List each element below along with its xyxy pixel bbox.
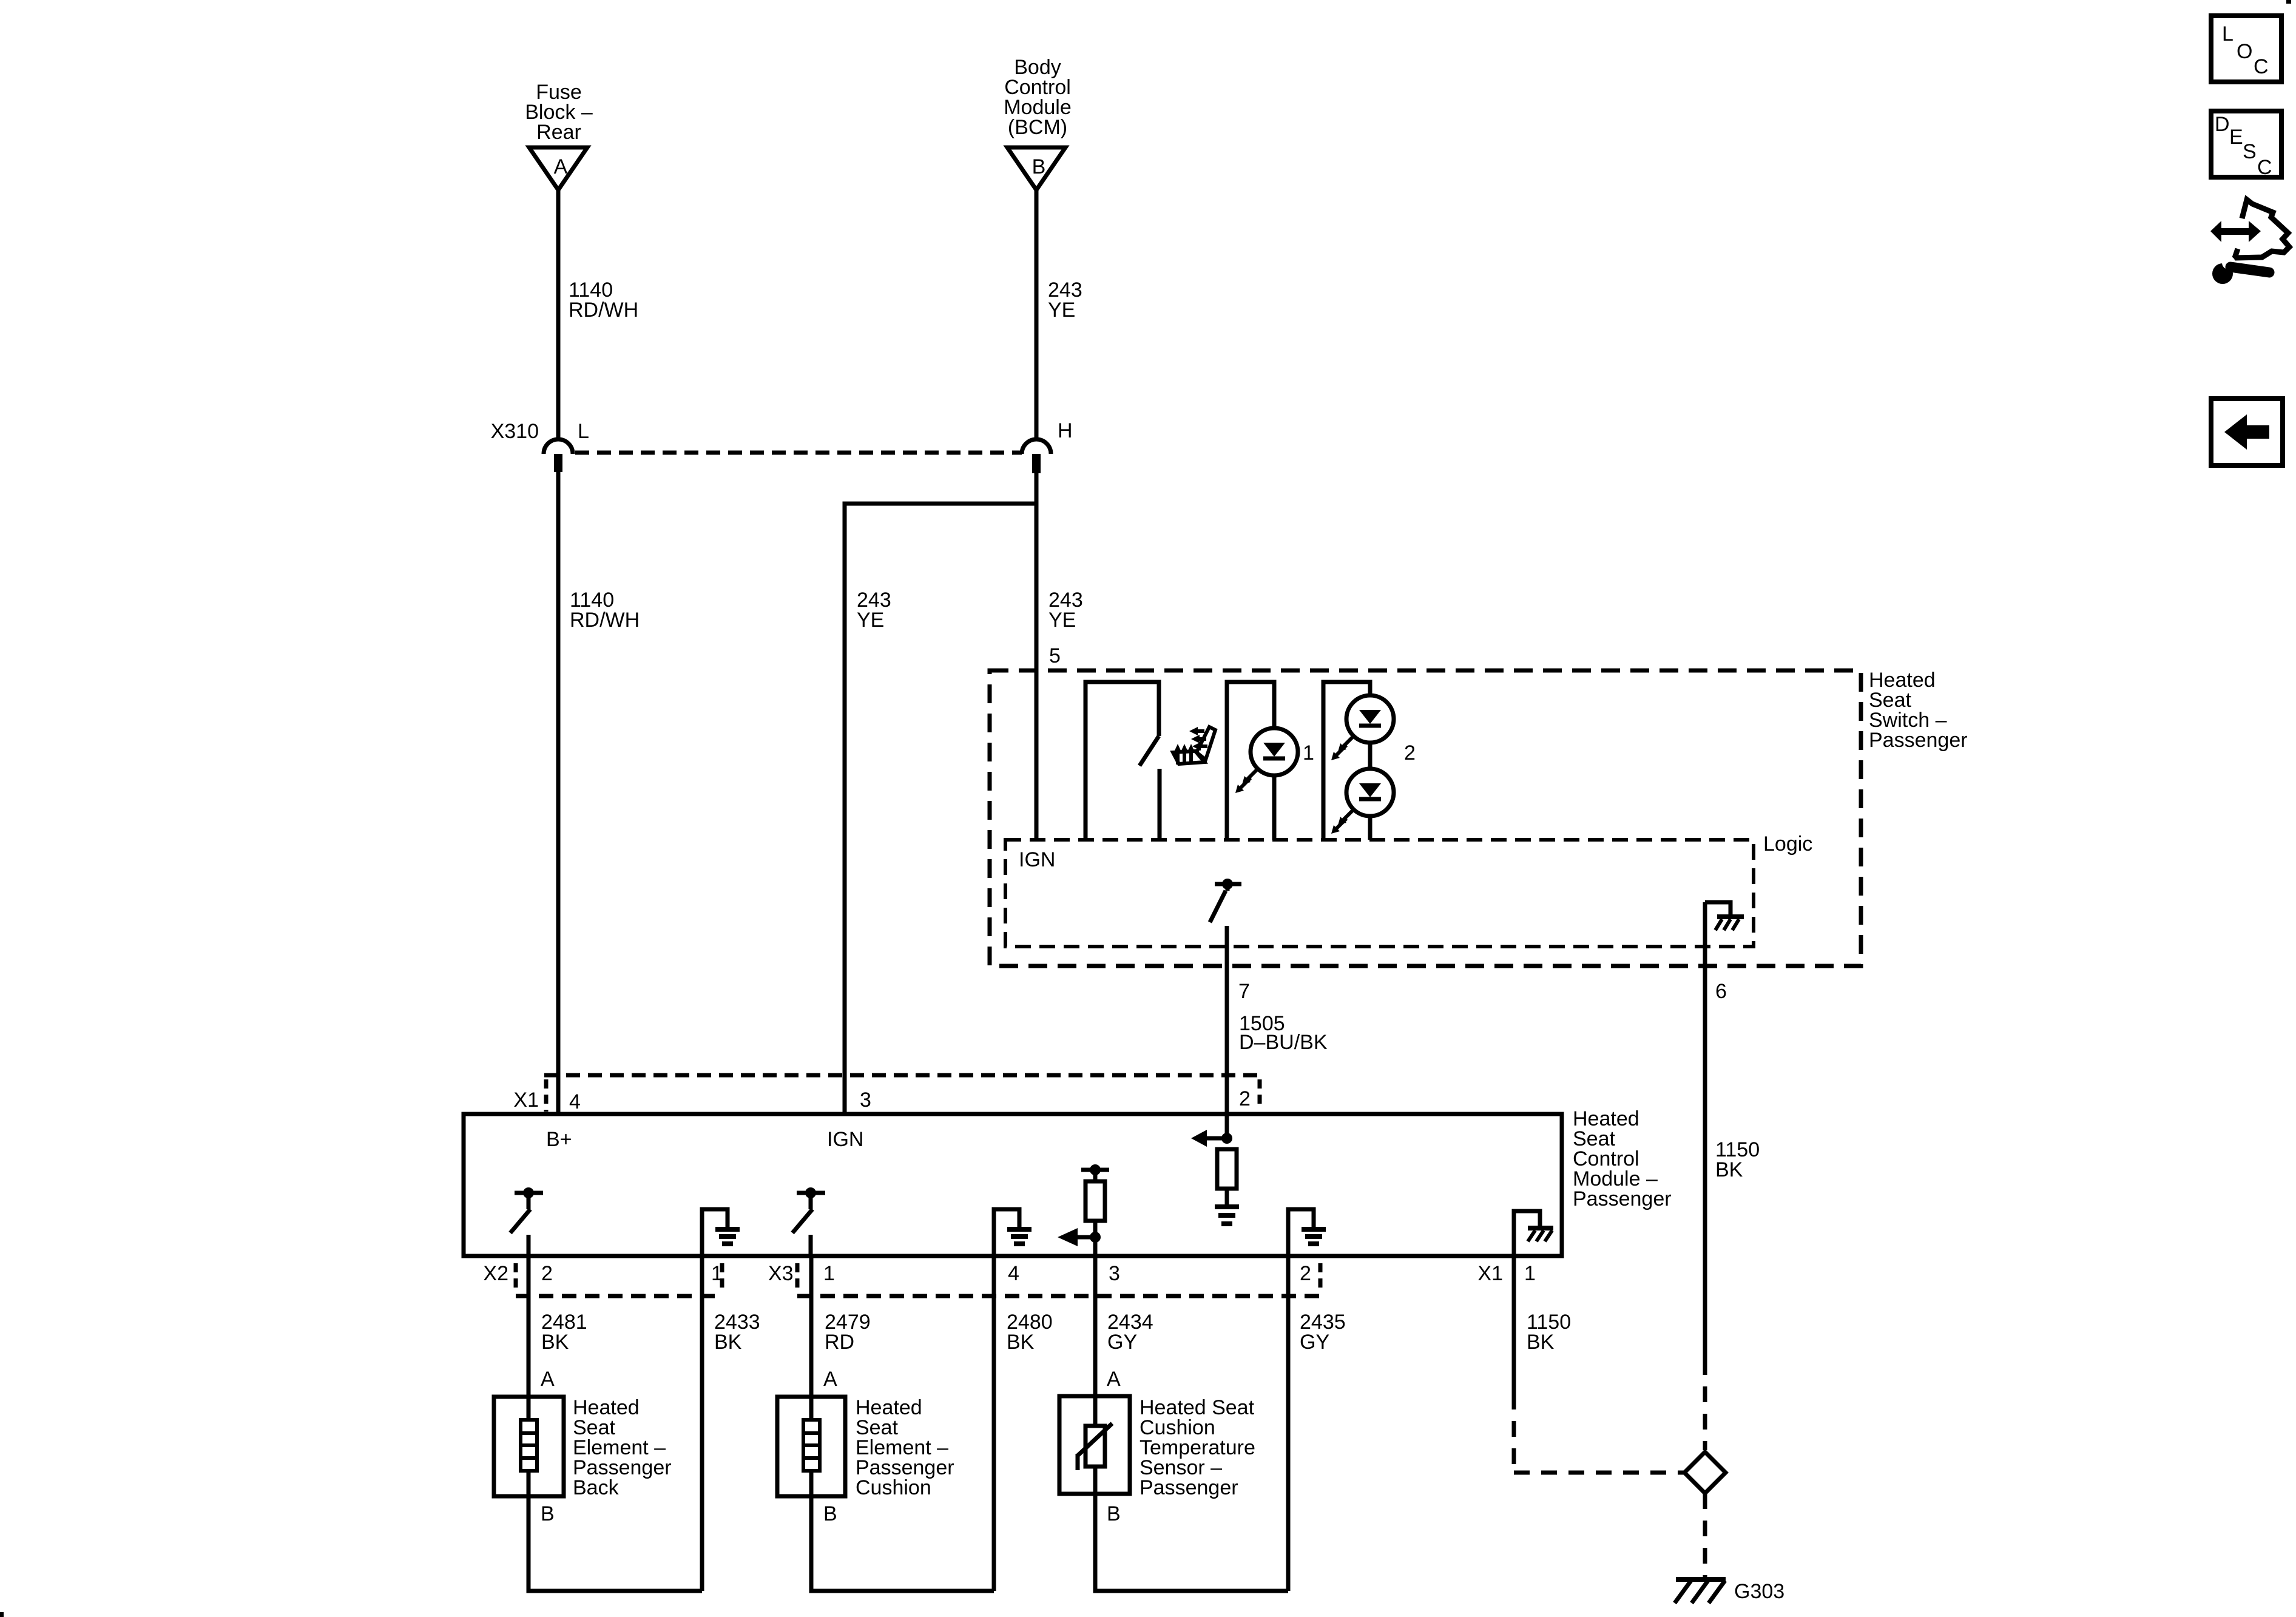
LED 2 lower wire xyxy=(1368,816,1373,840)
label Heated Seat Cushion Temperature Sensor - Passenger xyxy=(1140,1396,1255,1499)
svg-text:X3: X3 xyxy=(768,1262,794,1285)
value label 2481 BK xyxy=(541,1311,587,1354)
svg-text:1: 1 xyxy=(823,1262,835,1285)
svg-text:Passenger: Passenger xyxy=(1140,1476,1238,1499)
svg-text:B: B xyxy=(541,1502,555,1525)
svg-text:YE: YE xyxy=(857,609,884,632)
thermistor symbol xyxy=(1078,1423,1112,1470)
svg-text:RD: RD xyxy=(825,1331,854,1354)
heated seat switch assembly box (dashed) xyxy=(990,670,1861,966)
svg-text:3: 3 xyxy=(860,1089,871,1112)
page corner mark top right xyxy=(2286,0,2291,4)
svg-text:Cushion: Cushion xyxy=(856,1476,931,1499)
wire element back B return loop xyxy=(528,1496,702,1591)
value label 2435 GY xyxy=(1300,1311,1346,1354)
svg-text:X1: X1 xyxy=(513,1089,539,1112)
svg-text:Logic: Logic xyxy=(1763,832,1812,856)
heated seat icon xyxy=(1173,727,1215,765)
svg-text:7: 7 xyxy=(1238,980,1250,1003)
value label 243 YE (branch) xyxy=(857,589,891,632)
svg-text:D: D xyxy=(2215,113,2230,136)
svg-text:B+: B+ xyxy=(546,1128,572,1151)
svg-text:4: 4 xyxy=(1008,1262,1019,1285)
module ground pin X3-2 xyxy=(1288,1209,1326,1256)
svg-text:C: C xyxy=(2254,55,2269,78)
svg-text:6: 6 xyxy=(1715,980,1727,1003)
svg-text:YE: YE xyxy=(1048,609,1076,632)
value label 2434 GY xyxy=(1107,1311,1153,1354)
module ground pin X3-4 xyxy=(994,1209,1032,1256)
svg-text:Passenger: Passenger xyxy=(1573,1187,1672,1210)
logic output switch (to pin 7) xyxy=(1210,879,1241,922)
wire 2480 BK from module X3-4 down xyxy=(992,1256,996,1591)
svg-text:(BCM): (BCM) xyxy=(1008,116,1067,139)
X1 left tick xyxy=(544,1079,549,1112)
svg-text:BK: BK xyxy=(714,1331,742,1354)
svg-text:Rear: Rear xyxy=(536,121,581,144)
wire 1140 RD/WH from X310 L to module pin X1-4 xyxy=(556,472,561,1114)
value label 1505 D-BU/BK xyxy=(1239,1012,1328,1054)
wire element cushion B return loop xyxy=(811,1496,994,1591)
LED 1 lower wire xyxy=(1272,775,1277,840)
svg-text:L: L xyxy=(578,420,589,443)
1505 input resistor with arrow and ground (pin X1-2) xyxy=(1191,1130,1239,1226)
svg-text:3: 3 xyxy=(1109,1262,1120,1285)
wire 1150 BK dashed segment down xyxy=(1512,1394,1516,1473)
splice diamond xyxy=(1684,1452,1726,1493)
heater element symbol (back) xyxy=(521,1420,537,1471)
switch S1 lower stub wire xyxy=(1158,769,1162,840)
label Heated Seat Element - Passenger Back xyxy=(573,1396,672,1499)
svg-text:O: O xyxy=(2237,40,2252,63)
svg-text:IGN: IGN xyxy=(827,1128,863,1151)
svg-text:1: 1 xyxy=(711,1262,723,1285)
svg-text:GY: GY xyxy=(1300,1331,1329,1354)
wire dashed from splice to ground xyxy=(1703,1493,1707,1577)
LED 2 branch wires xyxy=(1323,682,1370,840)
wire 1505 D-BU/BK from switch pin 7 to module pin X1-2 xyxy=(1225,926,1229,1138)
X310 terminal H (socket arc and pin) xyxy=(1022,439,1051,473)
svg-text:H: H xyxy=(1058,419,1073,442)
off-page connector A (Fuse Block - Rear) xyxy=(529,147,587,190)
svg-text:X1: X1 xyxy=(1477,1262,1503,1285)
wire 243 YE from X310 H down to switch pin 5 xyxy=(1035,473,1039,840)
svg-text:5: 5 xyxy=(1049,644,1061,667)
LED indicator 2b xyxy=(1331,769,1394,834)
logic block box (dashed) xyxy=(1005,840,1754,947)
svg-text:B: B xyxy=(1107,1502,1121,1525)
X2 left tick xyxy=(514,1263,518,1294)
wire sensor B return loop xyxy=(1095,1494,1288,1591)
wire 243 YE branch to module pin X1-3 xyxy=(845,504,1036,1114)
svg-text:1: 1 xyxy=(1524,1262,1536,1285)
value label 243 YE (switch feed) xyxy=(1048,589,1083,632)
wire 1150 BK dashed segment to splice xyxy=(1514,1471,1684,1475)
heated seat cushion temperature sensor box xyxy=(1059,1396,1130,1494)
svg-text:L: L xyxy=(2222,22,2234,46)
svg-text:RD/WH: RD/WH xyxy=(570,609,640,632)
service info icon (double arrow, vehicle outline, wrench) xyxy=(2210,200,2289,284)
svg-text:2: 2 xyxy=(1404,741,1416,765)
module output switch 1 xyxy=(510,1187,543,1256)
ground G303 xyxy=(1675,1577,1726,1603)
svg-text:BK: BK xyxy=(1527,1331,1555,1354)
svg-text:YE: YE xyxy=(1048,299,1075,322)
X310 dashed connector line xyxy=(575,451,1022,455)
wire 2481 BK from module X2-2 to element A xyxy=(527,1256,531,1397)
switch S1 blade xyxy=(1140,736,1159,766)
X1 right tick xyxy=(1258,1079,1262,1109)
svg-text:IGN: IGN xyxy=(1019,848,1055,871)
svg-text:G303: G303 xyxy=(1734,1580,1784,1603)
module connector X3 dashed line (bottom) xyxy=(797,1294,1320,1298)
value label 1140 RD/WH (upper) xyxy=(569,279,638,322)
heated seat control module box xyxy=(464,1114,1562,1256)
svg-text:1: 1 xyxy=(1303,741,1314,765)
module connector X1 dashed line (top) xyxy=(544,1073,1260,1078)
DESC button xyxy=(2211,111,2281,179)
module ground pin X2-1 xyxy=(702,1209,740,1256)
X3 left tick xyxy=(795,1263,800,1294)
value label 1150 BK (switch side) xyxy=(1715,1138,1760,1181)
svg-text:B: B xyxy=(823,1502,837,1525)
wire 2479 RD from module X3-1 to element A xyxy=(809,1256,814,1397)
wire 1140 RD/WH from A to X310 xyxy=(556,190,561,439)
heater element symbol (cushion) xyxy=(803,1420,820,1471)
wire 1150 BK from switch pin 6 (solid) xyxy=(1703,902,1707,1359)
svg-text:A: A xyxy=(541,1368,555,1391)
svg-text:Back: Back xyxy=(573,1476,620,1499)
svg-text:S: S xyxy=(2243,140,2257,163)
svg-text:RD/WH: RD/WH xyxy=(569,299,638,322)
X310 terminal L (socket arc and pin) xyxy=(544,439,573,472)
logic internal chassis ground (pin 6) xyxy=(1705,902,1744,930)
value label 2433 BK xyxy=(714,1311,760,1354)
temperature sensor input resistor with arrow (pin X3-3) xyxy=(1058,1164,1109,1256)
svg-text:BK: BK xyxy=(1715,1158,1743,1181)
value label 243 YE (upper) xyxy=(1048,279,1082,322)
wire 2433 BK from module X2-1 down xyxy=(700,1256,704,1591)
wire 2434 GY from module X3-3 to sensor A xyxy=(1093,1256,1098,1396)
svg-text:4: 4 xyxy=(569,1090,581,1113)
heated seat element - passenger cushion box xyxy=(777,1397,845,1496)
X2 right tick xyxy=(720,1263,724,1294)
back button xyxy=(2211,399,2283,465)
svg-text:Passenger: Passenger xyxy=(1869,729,1968,752)
label Heated Seat Element - Passenger Cushion xyxy=(856,1396,954,1499)
module chassis ground pin X1-1 xyxy=(1514,1211,1553,1256)
LED indicator 2a xyxy=(1331,695,1394,760)
module output switch 2 xyxy=(792,1187,825,1256)
label Fuse Block - Rear xyxy=(525,81,593,144)
svg-text:E: E xyxy=(2229,126,2243,149)
svg-text:D–BU/BK: D–BU/BK xyxy=(1239,1031,1328,1054)
value label 1150 BK (module side) xyxy=(1527,1311,1571,1354)
wire 243 YE from B to X310 xyxy=(1035,190,1039,439)
value label 1140 RD/WH (lower) xyxy=(570,589,640,632)
svg-text:2: 2 xyxy=(1239,1087,1251,1110)
svg-text:A: A xyxy=(823,1368,837,1391)
wire 1150 BK from module X1-1 (solid) xyxy=(1512,1256,1516,1394)
value label 2480 BK xyxy=(1007,1311,1053,1354)
label Body Control Module (BCM) xyxy=(1004,56,1072,139)
svg-text:X310: X310 xyxy=(491,420,539,443)
svg-text:GY: GY xyxy=(1107,1331,1137,1354)
LED indicator 1 xyxy=(1235,728,1298,793)
svg-text:B: B xyxy=(1032,155,1046,178)
svg-text:BK: BK xyxy=(1007,1331,1035,1354)
LED 1 branch wires xyxy=(1227,682,1274,840)
module connector X2 dashed line (bottom) xyxy=(516,1294,722,1298)
svg-text:BK: BK xyxy=(541,1331,569,1354)
svg-text:2: 2 xyxy=(1300,1262,1311,1285)
LOC button xyxy=(2211,16,2281,82)
label Heated Seat Control Module - Passenger xyxy=(1573,1107,1672,1210)
svg-text:C: C xyxy=(2257,156,2272,179)
wire 2435 GY from module X3-2 down xyxy=(1286,1256,1291,1591)
LED 2 series link wire xyxy=(1368,743,1373,769)
label Heated Seat Switch - Passenger xyxy=(1869,669,1968,752)
svg-text:X2: X2 xyxy=(483,1262,508,1285)
switch S1 contact branch wires xyxy=(1086,682,1159,840)
stray mark bottom left xyxy=(0,1612,4,1617)
svg-text:2: 2 xyxy=(541,1262,553,1285)
heated seat element - passenger back box xyxy=(494,1397,564,1496)
wire 1150 BK dashed segment to splice xyxy=(1703,1359,1707,1450)
off-page connector B (BCM) xyxy=(1007,147,1065,190)
X3 right tick xyxy=(1319,1263,1323,1294)
value label 2479 RD xyxy=(825,1311,871,1354)
svg-text:A: A xyxy=(554,155,568,178)
svg-text:A: A xyxy=(1107,1368,1121,1391)
